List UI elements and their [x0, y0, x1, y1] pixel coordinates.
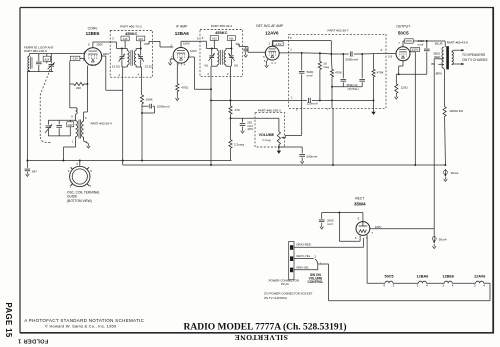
svg-text:12AV6: 12AV6 [265, 31, 279, 36]
svg-text:TO SPEAKERS: TO SPEAKERS [462, 53, 486, 57]
wire 2.2meg to AVC bus [231, 148, 232, 160]
wire 470K2 down [373, 77, 375, 101]
svg-text:A13: A13 [212, 36, 217, 40]
wire IF1 secondary bottom [136, 59, 141, 77]
svg-text:RECT: RECT [355, 197, 364, 201]
wire 1000 ohm to bus [444, 116, 447, 165]
resistor 22K [70, 82, 89, 90]
capacitor 6000mmf [424, 41, 430, 74]
svg-text:OUTPUT: OUTPUT [396, 25, 410, 29]
variable capacitor tuning gang osc section [45, 120, 52, 136]
wire trimmers down [125, 41, 142, 50]
svg-text:PART #50-70-3: PART #50-70-3 [120, 24, 141, 28]
capacitor .047 with ground [25, 169, 38, 176]
variable capacitor tuning gang ant section [48, 54, 55, 72]
resistor 47K [229, 100, 240, 114]
pin 2 RC box bottom [296, 108, 298, 112]
pins 2 4 IF1 [118, 73, 139, 77]
resistor 470K first [330, 54, 342, 77]
svg-text:mmf: mmf [327, 222, 333, 226]
resistor 10 meg [318, 53, 329, 101]
svg-text:A11: A11 [229, 36, 234, 40]
svg-text:455KC: 455KC [125, 31, 138, 36]
svg-text:Ω: Ω [236, 63, 238, 67]
svg-text:GRAY-RED: GRAY-RED [296, 243, 311, 247]
svg-text:ON TV CHASSIS: ON TV CHASSIS [462, 58, 488, 62]
capacitor 500mmf [299, 155, 317, 164]
capacitor IF1 primary [120, 49, 125, 68]
ground 120 ohm [395, 93, 399, 99]
label SW ON VOLUME CONTROL [308, 273, 324, 284]
svg-text:mmf: mmf [418, 42, 424, 46]
capacitor IF2 primary [209, 49, 214, 67]
wire 35W4 plate top [322, 212, 363, 222]
wire IF2 secondary bottom [226, 65, 231, 77]
svg-text:12AV6: 12AV6 [474, 275, 485, 279]
svg-text:SILVERTONE: SILVERTONE [234, 333, 288, 342]
wire 12BA6 cathode down [176, 63, 178, 84]
label osc transformer part [91, 122, 112, 126]
resistor 120 ohm [395, 74, 408, 93]
wire 100K down to bus [141, 104, 143, 161]
ground volume pot [277, 149, 281, 153]
wiper arrow [281, 137, 285, 139]
resistor 470 ohm [176, 84, 189, 92]
svg-text:PART #98-290-3: PART #98-290-3 [258, 108, 281, 112]
wire 12AV6 plate into RC box [279, 52, 302, 54]
svg-text:DET AVC-AF AMP: DET AVC-AF AMP [256, 24, 284, 28]
svg-text:Ω: Ω [206, 63, 208, 67]
svg-text:120V: 120V [375, 225, 382, 229]
svg-text:(BOTTOM VIEW): (BOTTOM VIEW) [67, 199, 92, 203]
svg-text:220mmf: 220mmf [307, 102, 318, 106]
wire IF1 input [110, 42, 123, 49]
svg-text:2.2meg: 2.2meg [234, 142, 244, 146]
wire osc windings join [75, 114, 77, 121]
voltage label 170V [405, 39, 414, 43]
wire AVC into box [289, 96, 307, 101]
svg-text:100V: 100V [102, 52, 109, 56]
heater string bus [367, 281, 490, 283]
wire cathode to 6000mmf [396, 73, 427, 75]
svg-text:50C5: 50C5 [384, 275, 393, 279]
IF transformer T1 dashed box [110, 31, 152, 78]
pin 2 12BA6 [170, 43, 172, 47]
output transformer T4 core [446, 46, 449, 69]
wire 12BA6 screen to AVC [188, 57, 212, 90]
trimmer arrow IF1 primary [119, 54, 125, 62]
wire IF2 output inside [236, 42, 243, 46]
IF2 core [221, 50, 223, 65]
wire RC box to 50C5 grid [386, 53, 396, 58]
heater 12BE6 [442, 275, 454, 288]
svg-text:IF AMP: IF AMP [176, 24, 188, 28]
wire 47K down [230, 114, 232, 119]
svg-text:10%: 10% [247, 127, 253, 131]
power connector plug [289, 242, 294, 280]
svg-text:PART #50-32-2: PART #50-32-2 [211, 24, 232, 28]
svg-text:12BA6: 12BA6 [175, 31, 190, 36]
svg-text:-1.6V: -1.6V [275, 42, 282, 46]
svg-text:CONV: CONV [88, 27, 99, 31]
capacitor 1000mmf [142, 104, 170, 113]
voltage label 150V [411, 47, 420, 51]
tube 12BA6 V2 [173, 48, 189, 64]
wire -12V line down [69, 61, 71, 84]
voltage labels 12BA6 [183, 42, 197, 54]
pin labels 12BA6 bottom [178, 62, 186, 66]
pin 1 RC box [290, 48, 292, 52]
svg-text:PAGE 15: PAGE 15 [4, 303, 13, 338]
trimmer A16 [121, 36, 129, 41]
wire caps bottom 250mmf TOTAL [332, 83, 362, 91]
wire 50C5 plate [398, 40, 428, 47]
svg-text:ON TV CHASSIS): ON TV CHASSIS) [264, 296, 287, 300]
label SILVERTONE rotated [234, 333, 288, 342]
label IF2 455KC [215, 30, 228, 35]
voltage label -1.6V [268, 42, 283, 46]
resistor 100K [140, 95, 153, 104]
osc transformer core [79, 120, 81, 139]
coil IF2 primary [212, 49, 219, 65]
pin 5 IF2 [202, 36, 204, 40]
label IF1 455KC [125, 31, 138, 36]
wire pot bottom to 500mmf [278, 146, 302, 153]
tube 35W4 V5 [356, 222, 370, 236]
wire IF1 output inside [144, 41, 152, 44]
tube 12BE6 V1 [84, 48, 102, 66]
svg-text:22K: 22K [76, 86, 82, 90]
label FOLDER 1 rotated [18, 338, 48, 344]
label RECT 35W4 [354, 197, 366, 207]
label 9 ohm [234, 63, 238, 67]
svg-text:100V: 100V [96, 43, 103, 47]
capacitor IF2 secondary [229, 49, 234, 67]
speaker lead arrow top [452, 49, 464, 52]
wire AVC line to IF2 [211, 99, 289, 101]
output transformer T4 secondary [452, 52, 454, 65]
label IF2 part number [211, 24, 232, 28]
label TO POWER CONNECTOR SOCKET [264, 292, 313, 300]
svg-text:GRAY-YEL: GRAY-YEL [296, 254, 311, 258]
label RC box part number [328, 29, 349, 33]
capacitor 250mmf A [341, 54, 347, 87]
coil IF1 secondary [134, 49, 140, 65]
svg-text:12BE6: 12BE6 [442, 275, 454, 279]
trimmer arrow IF2 secondary [228, 53, 234, 61]
oscillator coil T3 primary [72, 121, 78, 144]
ground 12BA6 grid3 [168, 56, 174, 65]
svg-text:Ω: Ω [406, 86, 408, 90]
label 4 ohm [204, 63, 208, 67]
wire IF1 pin4 down [141, 77, 144, 95]
svg-text:170V: 170V [405, 39, 412, 43]
svg-text:470K: 470K [335, 71, 342, 75]
wire IF2 input [200, 41, 213, 49]
wire antenna down to AVC bus [26, 72, 28, 168]
ground 12AV6 diodes [265, 59, 269, 68]
ground 50mA [432, 244, 436, 249]
B- bus wire [123, 161, 447, 166]
tube 50C5 V4 [396, 47, 410, 61]
capacitor C1A [36, 54, 42, 72]
label 350 ohm [433, 51, 440, 55]
coil IF1 primary [122, 49, 129, 65]
pin labels 12BE6 [83, 43, 109, 67]
ground RC box [371, 100, 375, 115]
svg-text:FOLDER 1: FOLDER 1 [18, 338, 48, 344]
wire to pin 7 bottom [326, 87, 333, 112]
wire 50C5 screen down to bus [410, 52, 415, 165]
wire to osc coil secondary [84, 84, 88, 121]
svg-text:VOLUME: VOLUME [259, 133, 275, 137]
wire to coupling cap [331, 53, 348, 55]
wire 50C5 cathode [398, 61, 403, 75]
label RADIO MODEL 7777A [184, 322, 347, 333]
wire B+ line [433, 59, 435, 229]
capacitor 5000mmf coupling [346, 51, 359, 61]
wire heater return loop [318, 264, 490, 301]
wire wiper to coupling [285, 135, 301, 137]
label DET AVC-AF AMP 12AV6 [256, 24, 284, 36]
AVC bus wire [26, 160, 231, 162]
svg-text:BLUE: BLUE [435, 41, 443, 45]
wire BRN lead down [436, 68, 445, 107]
svg-text:PART #82-130-6: PART #82-130-6 [24, 49, 47, 53]
label IF1 part number [120, 24, 141, 28]
svg-text:A PHOTOFACT STANDARD NOTATION: A PHOTOFACT STANDARD NOTATION SCHEMATIC [24, 318, 144, 323]
wire AVC to volume top [231, 117, 279, 119]
wire IF1 pin2 down to bus [122, 77, 124, 160]
svg-text:PART #80-43-8: PART #80-43-8 [447, 41, 468, 45]
current arrow 50mA [432, 229, 446, 244]
wire IF2 primary bottom [211, 65, 217, 77]
pin 3 IF1 [112, 36, 114, 40]
speaker lead arrow bottom [452, 63, 464, 66]
svg-text:(TOTAL): (TOTAL) [348, 87, 359, 91]
svg-text:A16: A16 [123, 37, 128, 41]
wire GRAY-YEL [294, 254, 317, 259]
label 6000mmf [418, 39, 425, 46]
wire IF2 pin2 down [230, 76, 232, 101]
wire 470K1 bottom [331, 77, 333, 88]
svg-text:PART #50-30-4: PART #50-30-4 [91, 122, 112, 126]
svg-text:12BA6: 12BA6 [416, 275, 428, 279]
svg-text:A12: A12 [68, 123, 73, 127]
svg-text:150V: 150V [412, 48, 419, 52]
wire 35W4 pin4 return [339, 213, 360, 242]
tube 12AV6 V3 [265, 46, 279, 60]
oscillator coil T3 secondary [82, 116, 88, 144]
svg-text:RED: RED [434, 55, 440, 59]
ground osc secondary [84, 137, 91, 148]
capacitor 2000mmf [319, 213, 334, 230]
svg-text:470K: 470K [377, 71, 384, 75]
pin labels 35W4 [355, 231, 374, 240]
wire RED tap [434, 55, 444, 59]
capacitor 5000mmf AVC [299, 53, 314, 135]
trimmer A12 [67, 120, 74, 136]
wire -12V to 12BE6 grid1 [80, 57, 84, 59]
IF transformer T2 dashed box [200, 30, 243, 77]
wire osc bottom [48, 135, 70, 137]
pins 4 2 IF2 [207, 72, 229, 76]
label osc coil terminal guide [67, 190, 100, 202]
label TO SPEAKERS ON TV CHASSIS [462, 53, 488, 62]
svg-text:1000mmf: 1000mmf [157, 104, 170, 108]
label copyright [45, 323, 117, 328]
svg-text:.047: .047 [31, 170, 37, 174]
pin labels 12AV6 [263, 55, 276, 65]
resistor 470K second [372, 53, 384, 77]
wire B top network [302, 52, 332, 54]
wire 35W4 output 120V [370, 225, 434, 229]
resistor 2.2meg [229, 118, 244, 148]
svg-text:35W4: 35W4 [354, 201, 366, 206]
loop antenna L1 [28, 56, 32, 71]
wire 12BE6 plate to IF1 [93, 42, 110, 48]
trimmer arrow IF2 primary [208, 53, 214, 61]
capacitor detector bypass [244, 47, 248, 58]
svg-text:Ω: Ω [151, 64, 153, 68]
wire to osc feedback coil [70, 84, 76, 119]
label CONV 12BE6 [86, 27, 100, 37]
wire GRN-YEL [294, 261, 322, 269]
wire 12BE6 cathode down [86, 66, 88, 84]
svg-text:GRN-YEL: GRN-YEL [296, 265, 309, 269]
svg-text:30mA: 30mA [451, 171, 459, 175]
svg-text:1 meg: 1 meg [262, 138, 271, 142]
trimmer A11 [227, 36, 235, 41]
pin 6 RC box [381, 48, 383, 52]
wire GRAY-RED [294, 238, 364, 247]
svg-text:Ω: Ω [118, 64, 120, 68]
capacitor 220mmf AVC [307, 98, 318, 106]
svg-text:50mA: 50mA [439, 237, 447, 241]
svg-text:A14: A14 [44, 57, 49, 61]
wire 35W4 heater down [366, 235, 368, 283]
svg-text:CONTROL: CONTROL [308, 280, 324, 284]
trimmer A14 [43, 54, 50, 64]
label ferrite loop antenna [24, 45, 54, 53]
heater 50C5 [383, 275, 394, 288]
svg-text:100K: 100K [146, 98, 154, 102]
capacitor osc fixed [56, 120, 62, 136]
label PAGE 15 rotated [4, 303, 13, 338]
potentiometer volume 1meg [277, 118, 280, 149]
wire IF1 primary bottom [122, 65, 127, 77]
svg-text:100V: 100V [190, 49, 197, 53]
label output transformer part [447, 41, 468, 45]
RC network dashed box [289, 34, 386, 108]
label POWER CONNECTOR PLUG [269, 278, 299, 286]
svg-text:© Howard W. Sams & Co., Inc. 1: © Howard W. Sams & Co., Inc. 1959 [45, 323, 117, 328]
wire IF2 to 12AV6 [243, 47, 266, 53]
wire BLUE lead [427, 41, 445, 47]
capacitor 220mmf 10% [240, 118, 254, 133]
svg-text:47K: 47K [235, 108, 240, 112]
svg-text:BK: BK [431, 62, 435, 66]
trimmer arrow IF1 secondary [138, 54, 144, 62]
svg-text:500mmf: 500mmf [306, 155, 317, 159]
svg-text:PART #53-39-7: PART #53-39-7 [328, 29, 349, 33]
svg-text:-12V: -12V [72, 57, 78, 61]
label IF AMP 12BA6 [175, 24, 190, 36]
wire osc top [48, 119, 75, 121]
svg-text:mmf: mmf [307, 74, 313, 78]
ground 30mA [444, 177, 448, 182]
oscillator coil T3 feedback winding [76, 108, 78, 114]
heater 12BA6 [416, 275, 428, 288]
wire antenna to 12BE6 grid [29, 54, 84, 57]
label photofact notation [24, 318, 144, 323]
svg-text:2-5: 2-5 [388, 54, 393, 58]
capacitor IF1 secondary [138, 49, 143, 68]
label OUTPUT 50C5 [396, 25, 410, 36]
svg-text:BRN: BRN [436, 71, 442, 75]
svg-text:1000Ω 2W: 1000Ω 2W [449, 109, 463, 113]
svg-text:100V: 100V [183, 42, 190, 46]
dashed gang link [40, 69, 51, 142]
svg-text:PLUG: PLUG [281, 282, 290, 286]
wire antenna bottom [27, 70, 53, 71]
wire IF2 trimmers down [214, 40, 232, 49]
wire 12AV6 grid to 10meg [272, 41, 332, 55]
output transformer T4 primary [442, 47, 444, 68]
svg-text:50C5: 50C5 [398, 31, 409, 36]
resistor 1000 ohm 2W [443, 107, 463, 117]
wire 12BA6 plate to IF2 [181, 37, 200, 48]
voltage label -12V [70, 56, 80, 60]
current arrow 30mA [443, 169, 458, 177]
trimmer A15 [137, 36, 145, 41]
switch blade [315, 259, 318, 264]
label 13.5 ohm secondary [145, 64, 153, 68]
wire 12BE6 plate pin5 down [101, 56, 123, 90]
wire coupling cap to pin 6 [354, 53, 386, 55]
volume control dashed box [255, 113, 285, 147]
trimmer A13 [210, 36, 218, 41]
wire pin7 down to bus [332, 108, 333, 165]
label VOLUME 1 meg [259, 133, 275, 142]
coil IF2 secondary [224, 49, 231, 65]
svg-text:455KC: 455KC [215, 30, 228, 35]
label 13.5 ohm primary [112, 64, 120, 68]
label volume part number [258, 108, 281, 112]
IF1 core [131, 50, 133, 66]
tuning capacitor osc coil terminal guide [68, 161, 93, 189]
svg-text:A15: A15 [138, 37, 143, 41]
svg-text:Ω: Ω [186, 85, 188, 89]
svg-text:5000mmf: 5000mmf [346, 58, 359, 62]
wire IF2 pin4 down to bus [210, 76, 212, 165]
heater 12AV6 [474, 275, 485, 288]
wire BK lead [431, 62, 443, 66]
svg-text:meg: meg [323, 65, 329, 69]
wire IF1 to 12BA6 grid [153, 41, 174, 47]
wire osc primary bottom to bus [64, 137, 76, 161]
ground 470 ohm [176, 92, 180, 101]
wire 220mmf to 470K2 [312, 99, 374, 101]
svg-text:12BE6: 12BE6 [86, 31, 100, 36]
capacitor 250mmf B [359, 54, 365, 87]
pin 5 RC box [290, 36, 292, 40]
svg-text:RADIO MODEL 7777A (Ch. 528.531: RADIO MODEL 7777A (Ch. 528.53191) [184, 322, 347, 333]
